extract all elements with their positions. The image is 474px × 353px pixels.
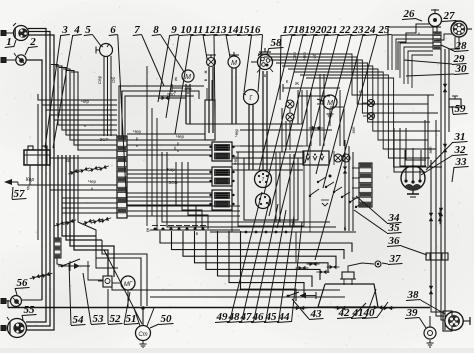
svg-text:3: 3 — [61, 24, 68, 36]
leader line 12 — [203, 35, 207, 59]
svg-text:б: б — [344, 226, 347, 231]
motor 21 — [323, 95, 337, 109]
svg-text:31: 31 — [454, 131, 466, 143]
tank 40-42 — [318, 284, 378, 307]
wire rows to terminal strip — [38, 94, 117, 100]
wires to socket 38 — [431, 308, 444, 312]
fuse block on wire 54 area — [54, 238, 61, 258]
svg-text:зел: зел — [428, 146, 433, 153]
leader line 33 — [452, 167, 454, 182]
leader line 27 — [452, 21, 457, 26]
leader line 54 — [69, 263, 71, 325]
svg-text:2: 2 — [29, 36, 36, 48]
svg-text:1: 1 — [6, 36, 12, 48]
wire starter feed a — [96, 236, 141, 306]
svg-text:зел: зел — [351, 126, 356, 133]
inline connectors left upper — [70, 171, 74, 175]
leader line 35 — [354, 210, 387, 233]
connector dots row2 — [245, 231, 248, 234]
svg-text:6: 6 — [110, 24, 116, 36]
svg-text:Ст: Ст — [138, 332, 147, 338]
lamp 39 — [424, 327, 436, 339]
svg-text:17: 17 — [283, 24, 295, 36]
svg-text:к: к — [136, 143, 138, 148]
svg-text:39: 39 — [406, 307, 419, 319]
leader line 3 — [45, 35, 61, 148]
leader line 5 — [93, 35, 101, 46]
wire horn zigzag — [398, 24, 429, 70]
svg-text:26: 26 — [403, 8, 416, 20]
svg-text:22: 22 — [339, 24, 352, 36]
wire cross verticals mid-left — [146, 66, 148, 226]
svg-text:51: 51 — [126, 313, 137, 325]
svg-text:Чер: Чер — [81, 99, 90, 104]
wire second bottom bus — [150, 296, 345, 298]
svg-text:7: 7 — [134, 24, 140, 36]
parking lamp 2 — [16, 55, 26, 65]
leader line 15 — [244, 35, 252, 92]
bracket K — [171, 84, 173, 92]
svg-text:18: 18 — [294, 24, 306, 36]
wires top-right to staircase — [392, 35, 433, 70]
svg-text:об: об — [312, 53, 317, 59]
leader line 46 — [266, 210, 287, 322]
switch contacts fan — [318, 177, 326, 182]
leader line 25 — [315, 35, 377, 260]
svg-text:54: 54 — [73, 314, 85, 326]
leader line 36 — [402, 246, 428, 255]
lamp 19b — [286, 113, 294, 121]
leader line 26 — [417, 19, 423, 21]
sender wire to 37 — [348, 263, 374, 272]
lamp 5 — [100, 44, 113, 57]
ignition switch 18 — [255, 171, 272, 188]
wires into strip 34 — [352, 167, 359, 169]
leader line 40 — [377, 302, 389, 318]
wire verticals right of switches — [344, 140, 346, 231]
leader line 53 — [83, 273, 91, 324]
svg-text:К: К — [175, 77, 178, 83]
svg-text:Чер: Чер — [88, 179, 97, 184]
leader line 6 — [118, 35, 127, 210]
leader line 18 — [259, 35, 292, 170]
wire right verticals lower — [430, 160, 432, 308]
svg-text:57: 57 — [14, 188, 26, 200]
device 59 — [449, 99, 461, 107]
socket 38 — [443, 311, 452, 331]
wire right join verticals — [424, 120, 426, 166]
relay-regulator upper — [212, 142, 232, 161]
horn 26 — [429, 14, 442, 27]
svg-text:32: 32 — [454, 144, 467, 156]
svg-text:35: 35 — [388, 222, 401, 234]
svg-text:к: к — [84, 123, 86, 128]
leader line 8 — [161, 35, 184, 72]
svg-text:50: 50 — [161, 313, 173, 325]
lever switch 54 — [62, 259, 80, 266]
wire rows center lower — [240, 221, 330, 223]
leader line 17 — [280, 35, 281, 100]
wire elbows to lower cluster — [162, 152, 240, 222]
leader line 45 — [279, 216, 295, 322]
wire MG row — [118, 289, 340, 291]
svg-text:ЗСВ: ЗСВ — [169, 180, 178, 185]
leader line 29 — [404, 60, 452, 64]
svg-text:19: 19 — [305, 24, 317, 36]
wire box above relays — [205, 100, 215, 140]
leader line 57 — [12, 187, 13, 199]
svg-text:к: к — [359, 89, 361, 94]
svg-text:Сер: Сер — [292, 51, 297, 60]
switch 52 — [103, 276, 112, 287]
svg-text:б: б — [174, 146, 177, 151]
svg-text:Об: Об — [111, 77, 116, 84]
wire verticals above switch box — [306, 90, 308, 146]
svg-text:49: 49 — [216, 311, 229, 323]
gauge 31 — [401, 166, 425, 190]
leader line 20 — [269, 35, 314, 216]
svg-text:21: 21 — [326, 24, 338, 36]
svg-text:Сер: Сер — [97, 75, 102, 84]
wire horn left run — [388, 27, 429, 70]
svg-text:Чер: Чер — [176, 134, 185, 139]
switch 19 — [256, 194, 271, 209]
svg-text:к: к — [418, 31, 420, 36]
svg-text:42: 42 — [338, 307, 351, 319]
leader line 13 — [214, 35, 215, 120]
light switch box — [303, 151, 329, 165]
headlight 55 — [8, 319, 27, 338]
leader line 21 — [277, 35, 325, 228]
lamp 2 terminal — [1, 58, 6, 63]
svg-text:12: 12 — [205, 24, 217, 36]
svg-text:5: 5 — [85, 24, 91, 36]
leader line 24 — [323, 35, 363, 188]
leader line 58 — [267, 48, 269, 54]
wire rows below-left of strip — [62, 197, 117, 199]
leader line 19 — [264, 35, 303, 194]
connector 57 — [4, 179, 12, 185]
leader line 38 — [421, 300, 446, 314]
battery 3-4 — [24, 150, 50, 165]
wire strip top risers — [119, 86, 204, 136]
fuel sender 41 — [342, 272, 354, 279]
terminal strip block — [117, 136, 127, 218]
terminal strip 34 — [359, 163, 372, 207]
wire staircase to right side — [258, 54, 434, 95]
wire horn drop — [436, 27, 438, 32]
wire headlight feed b — [26, 32, 50, 327]
leader line 55 — [22, 315, 23, 320]
leader line 41 — [366, 289, 377, 318]
leader line 50 — [150, 324, 159, 328]
svg-text:58: 58 — [271, 37, 283, 49]
wire bundle left-2 — [57, 155, 59, 238]
wire verticals center lower — [275, 152, 277, 222]
lamp 56 — [11, 296, 22, 307]
leader line 30 — [406, 74, 454, 76]
contact 325 — [322, 203, 328, 206]
svg-text:52: 52 — [110, 313, 122, 325]
leader line 9 — [158, 35, 170, 102]
leader line 14 — [226, 35, 230, 57]
connector 37 — [375, 261, 381, 267]
motor 14 — [228, 56, 240, 68]
leader line 42 — [352, 303, 367, 318]
leader line 23 — [316, 35, 351, 174]
svg-text:30: 30 — [455, 63, 468, 75]
svg-text:56: 56 — [17, 277, 29, 289]
wire fan strip to relays — [127, 133, 205, 135]
svg-text:9: 9 — [171, 24, 177, 36]
relay middle — [212, 167, 232, 186]
ignition coil 58 — [258, 55, 273, 70]
svg-text:Чер: Чер — [234, 129, 239, 138]
svg-text:55: 55 — [24, 304, 36, 316]
svg-text:13: 13 — [216, 24, 228, 36]
svg-text:41: 41 — [352, 307, 364, 319]
leader line 56 — [15, 288, 17, 295]
svg-text:М: М — [185, 74, 191, 81]
starter CT 50 — [136, 326, 151, 341]
svg-text:к: к — [177, 148, 179, 153]
wire center cross rows — [186, 123, 302, 125]
leader line 28 — [441, 45, 454, 51]
relay lower — [212, 190, 232, 210]
svg-text:ЗВ: ЗВ — [65, 158, 71, 163]
svg-text:Кор: Кор — [167, 167, 175, 172]
leader line 10 — [166, 35, 179, 118]
wire starter feed b — [102, 240, 147, 306]
wire rows center-top — [298, 95, 330, 97]
motor MG 51 — [121, 276, 135, 290]
leader line 16 — [258, 35, 263, 92]
bracket K right — [282, 84, 284, 92]
wire 27 drops — [454, 37, 456, 49]
svg-text:23: 23 — [352, 24, 365, 36]
leader line 34 — [356, 196, 387, 223]
leader line 11 — [175, 35, 191, 134]
svg-text:53: 53 — [93, 313, 105, 325]
connector 27 — [451, 21, 467, 37]
svg-text:15: 15 — [239, 24, 251, 36]
svg-text:8: 8 — [153, 24, 159, 36]
contacts bottom center — [299, 266, 303, 270]
wire bundle left-3 risers — [78, 155, 118, 268]
leader line 7 — [142, 35, 164, 86]
wire headlight feed c — [26, 35, 54, 330]
svg-text:10: 10 — [181, 24, 193, 36]
flasher 53 — [68, 265, 90, 267]
leader line 51 — [124, 292, 130, 324]
leader line 31 — [426, 142, 453, 170]
wire parking lamp feed — [26, 60, 42, 300]
svg-text:59: 59 — [455, 103, 467, 115]
svg-text:16: 16 — [250, 24, 262, 36]
svg-text:Чер: Чер — [302, 52, 307, 61]
leader line 48 — [242, 198, 271, 322]
contact cluster mid — [312, 126, 316, 130]
terminal strip 28 — [433, 32, 441, 49]
lamp 12 — [207, 58, 216, 67]
wire nested loops — [160, 231, 352, 252]
headlight 1 — [14, 26, 29, 41]
svg-text:14: 14 — [228, 24, 240, 36]
wire lamp56 — [21, 299, 42, 301]
contact 43 switch — [288, 292, 299, 296]
connector row mid — [154, 228, 157, 231]
svg-text:Чер: Чер — [233, 156, 238, 165]
leader line 22 — [305, 35, 338, 163]
leader line 4 — [53, 35, 73, 148]
svg-text:7: 7 — [262, 177, 265, 183]
svg-text:Кор: Кор — [26, 177, 35, 183]
leader line 32 — [421, 155, 453, 175]
svg-text:38: 38 — [407, 289, 420, 301]
leader line 44 — [292, 222, 303, 322]
wire row 57-190 — [50, 189, 117, 191]
svg-text:ЗСР: ЗСР — [100, 137, 109, 142]
svg-text:24: 24 — [364, 24, 377, 36]
leader line 59 — [452, 106, 453, 114]
svg-text:37: 37 — [389, 253, 402, 265]
leader line 2 — [25, 47, 29, 55]
wire to starter diagonal — [104, 250, 142, 324]
wires below lamp 5 — [103, 56, 105, 136]
wire extra left vertical — [37, 104, 39, 240]
svg-text:20: 20 — [315, 24, 328, 36]
svg-text:М: М — [231, 60, 237, 67]
wire center verticals — [185, 84, 187, 124]
leader line 52 — [107, 289, 109, 324]
lever contact 313 — [309, 189, 319, 196]
lamp pair right — [368, 100, 375, 107]
leader line 1 — [14, 40, 16, 47]
wire row 57-185 — [18, 184, 117, 186]
wire gauge feeds — [404, 150, 406, 166]
leader line 43 — [292, 299, 309, 319]
svg-text:к: к — [174, 89, 176, 94]
svg-text:28: 28 — [455, 40, 468, 52]
svg-text:33: 33 — [455, 156, 468, 168]
leader line 39 — [420, 318, 427, 328]
nested corners right — [394, 128, 426, 172]
svg-text:36: 36 — [388, 235, 401, 247]
leader line 37 — [382, 263, 388, 264]
fuse block 36 — [426, 253, 448, 260]
inline connectors left — [56, 223, 60, 227]
headlight 1 terminal — [1, 31, 6, 36]
svg-text:4: 4 — [73, 24, 80, 36]
motor 8 — [182, 70, 194, 82]
lamp 19a — [286, 100, 294, 108]
inline connectors lamp bundle — [32, 276, 36, 280]
wire loop around switches — [244, 158, 298, 220]
svg-text:11: 11 — [193, 24, 203, 36]
bus arrow contacts — [296, 306, 300, 310]
svg-text:К: К — [286, 79, 289, 84]
leader line 49 — [230, 192, 263, 322]
svg-text:б: б — [27, 186, 30, 192]
arrow connectors right — [443, 84, 447, 88]
svg-text:к: к — [91, 186, 93, 191]
wire headlight feed a — [26, 29, 46, 323]
svg-text:М: М — [327, 100, 333, 107]
wire verticals under lamps — [285, 121, 287, 150]
svg-text:МГ: МГ — [124, 282, 133, 288]
wire right vertical x436 upper — [435, 120, 437, 160]
svg-text:43: 43 — [310, 308, 323, 320]
leader line 47 — [254, 204, 279, 322]
svg-text:ж: ж — [203, 70, 208, 73]
lamp pair switchbox — [334, 154, 342, 162]
wire 500 — [158, 97, 186, 99]
svg-text:25: 25 — [378, 24, 391, 36]
svg-text:27: 27 — [443, 10, 456, 22]
svg-text:Чер: Чер — [133, 129, 142, 134]
main ground bus — [8, 307, 430, 309]
gauge 17 — [244, 90, 259, 105]
wire rows into switch box — [232, 157, 303, 159]
wire right verticals top — [444, 49, 446, 330]
wire battery down — [29, 165, 31, 185]
